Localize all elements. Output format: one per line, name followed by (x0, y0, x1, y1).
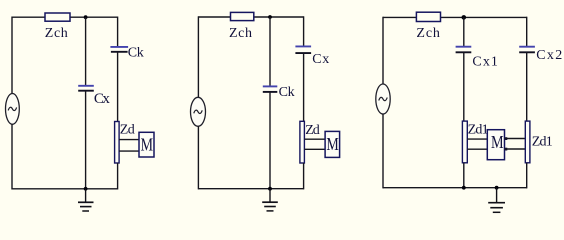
detector element Zd1 right plate (circuit 3) (525, 121, 530, 163)
capacitor Ck (circuit 2) (263, 86, 278, 92)
ground (circuit 3) (488, 188, 505, 213)
wire: top left segment circuit 1 (12, 16, 46, 18)
wire: middle branch lower circuit 2 (269, 92, 271, 189)
resistor Zch (circuit 2) (231, 12, 254, 20)
pin: meter right terminal lower circuit 3 (505, 148, 508, 151)
node: top junction circuit 1 (84, 15, 88, 19)
wire: middle branch middle circuit 3 (463, 52, 465, 121)
wire: middle branch upper circuit 1 (85, 17, 87, 86)
svg-text:Zch: Zch (45, 26, 68, 41)
svg-text:Cx2: Cx2 (536, 48, 562, 63)
AC source V (circuit 2) (191, 97, 206, 126)
ground (circuit 1) (78, 189, 94, 211)
wire: top right segment circuit 1 (70, 16, 118, 18)
capacitor Cx2 (circuit 3) (519, 47, 535, 53)
capacitor Cx (circuit 1) (78, 86, 94, 91)
wire: meter lead lower circuit 1 (119, 150, 139, 152)
wire: right branch middle circuit 2 (303, 53, 305, 121)
resistor Zch (circuit 3) (416, 12, 440, 21)
wire: right branch lower circuit 3 (526, 163, 528, 189)
svg-text:Cx: Cx (312, 52, 329, 67)
wire: right branch upper circuit 3 (526, 17, 528, 47)
wire: top right segment circuit 3 (440, 16, 527, 18)
svg-text:M: M (326, 134, 338, 154)
wire: left vertical upper circuit 2 (197, 16, 199, 97)
wire: meter lead upper circuit 2 (304, 138, 325, 140)
wire: bottom wire circuit 3 (383, 187, 527, 189)
wire: right branch middle circuit 1 (117, 52, 119, 122)
wire: left vertical lower circuit 3 (382, 114, 384, 188)
wire: meter lead upper circuit 1 (119, 139, 139, 141)
detector element Zd plate (circuit 2) (300, 121, 305, 163)
wire: middle branch upper circuit 2 (269, 17, 271, 86)
svg-text:Cx1: Cx1 (472, 54, 498, 69)
wire: top right segment circuit 2 (253, 16, 303, 18)
svg-text:Zd: Zd (305, 123, 320, 138)
wire: right branch upper circuit 1 (117, 17, 119, 47)
capacitor Cx1 (circuit 3) (456, 47, 472, 53)
wire: meter right lead upper circuit 3 (505, 138, 526, 140)
wire: right branch lower circuit 2 (303, 163, 305, 189)
meter M box (circuit 2) (325, 131, 340, 157)
node: bottom junction left circuit 3 (462, 186, 466, 190)
node: top junction circuit 3 (462, 15, 467, 20)
ground (circuit 2) (262, 189, 278, 211)
svg-text:Ck: Ck (279, 85, 295, 100)
wire: right branch middle circuit 3 (526, 52, 528, 121)
wire: middle branch upper circuit 3 (463, 17, 465, 46)
pin: meter right terminal upper circuit 3 (505, 137, 508, 140)
svg-text:M: M (491, 132, 504, 152)
svg-text:Zd1: Zd1 (468, 122, 489, 137)
wire: middle branch lower circuit 1 (85, 91, 87, 189)
node: bottom junction circuit 1 (84, 187, 88, 191)
svg-text:Zch: Zch (416, 26, 440, 41)
wire: top left segment circuit 3 (383, 16, 417, 18)
svg-text:Zd: Zd (120, 122, 135, 137)
svg-text:Zch: Zch (229, 26, 252, 41)
wire: left vertical lower circuit 2 (197, 126, 199, 189)
node: top junction circuit 2 (268, 15, 272, 19)
detector element Zd1 left plate (circuit 3) (462, 121, 467, 163)
detector element Zd plate (circuit 1) (115, 122, 120, 164)
AC source V (circuit 3) (376, 84, 390, 114)
wire: bottom wire circuit 1 (12, 188, 118, 190)
wire: left vertical upper circuit 3 (382, 17, 384, 85)
meter M box (circuit 1) (139, 132, 154, 157)
node: bottom junction circuit 2 (268, 187, 272, 191)
wire: right branch upper circuit 2 (303, 16, 305, 46)
capacitor Cx (circuit 2) (295, 46, 311, 53)
meter M box (circuit 3) (487, 130, 504, 160)
wire: right branch lower circuit 1 (117, 163, 119, 190)
capacitor Ck (circuit 1) (110, 47, 128, 52)
wire: meter left lead upper circuit 3 (467, 138, 488, 140)
AC source V (circuit 1) (5, 94, 19, 125)
svg-text:Zd1: Zd1 (532, 134, 553, 149)
svg-text:Ck: Ck (128, 46, 144, 61)
wire: meter right lead lower circuit 3 (505, 148, 526, 150)
wire: middle branch lower circuit 3 (463, 163, 465, 188)
svg-text:M: M (141, 134, 153, 154)
svg-text:Cx: Cx (94, 91, 111, 107)
wire: meter lead lower circuit 2 (304, 148, 325, 150)
wire: left vertical lower circuit 1 (11, 124, 13, 189)
node: bottom junction ground circuit 3 (495, 186, 499, 190)
wire: meter left lead lower circuit 3 (467, 148, 488, 150)
wire: left vertical upper circuit 1 (11, 17, 13, 95)
wire: top left segment circuit 2 (198, 16, 231, 18)
wire: bottom wire circuit 2 (198, 188, 303, 190)
resistor Zch (circuit 1) (45, 13, 70, 21)
